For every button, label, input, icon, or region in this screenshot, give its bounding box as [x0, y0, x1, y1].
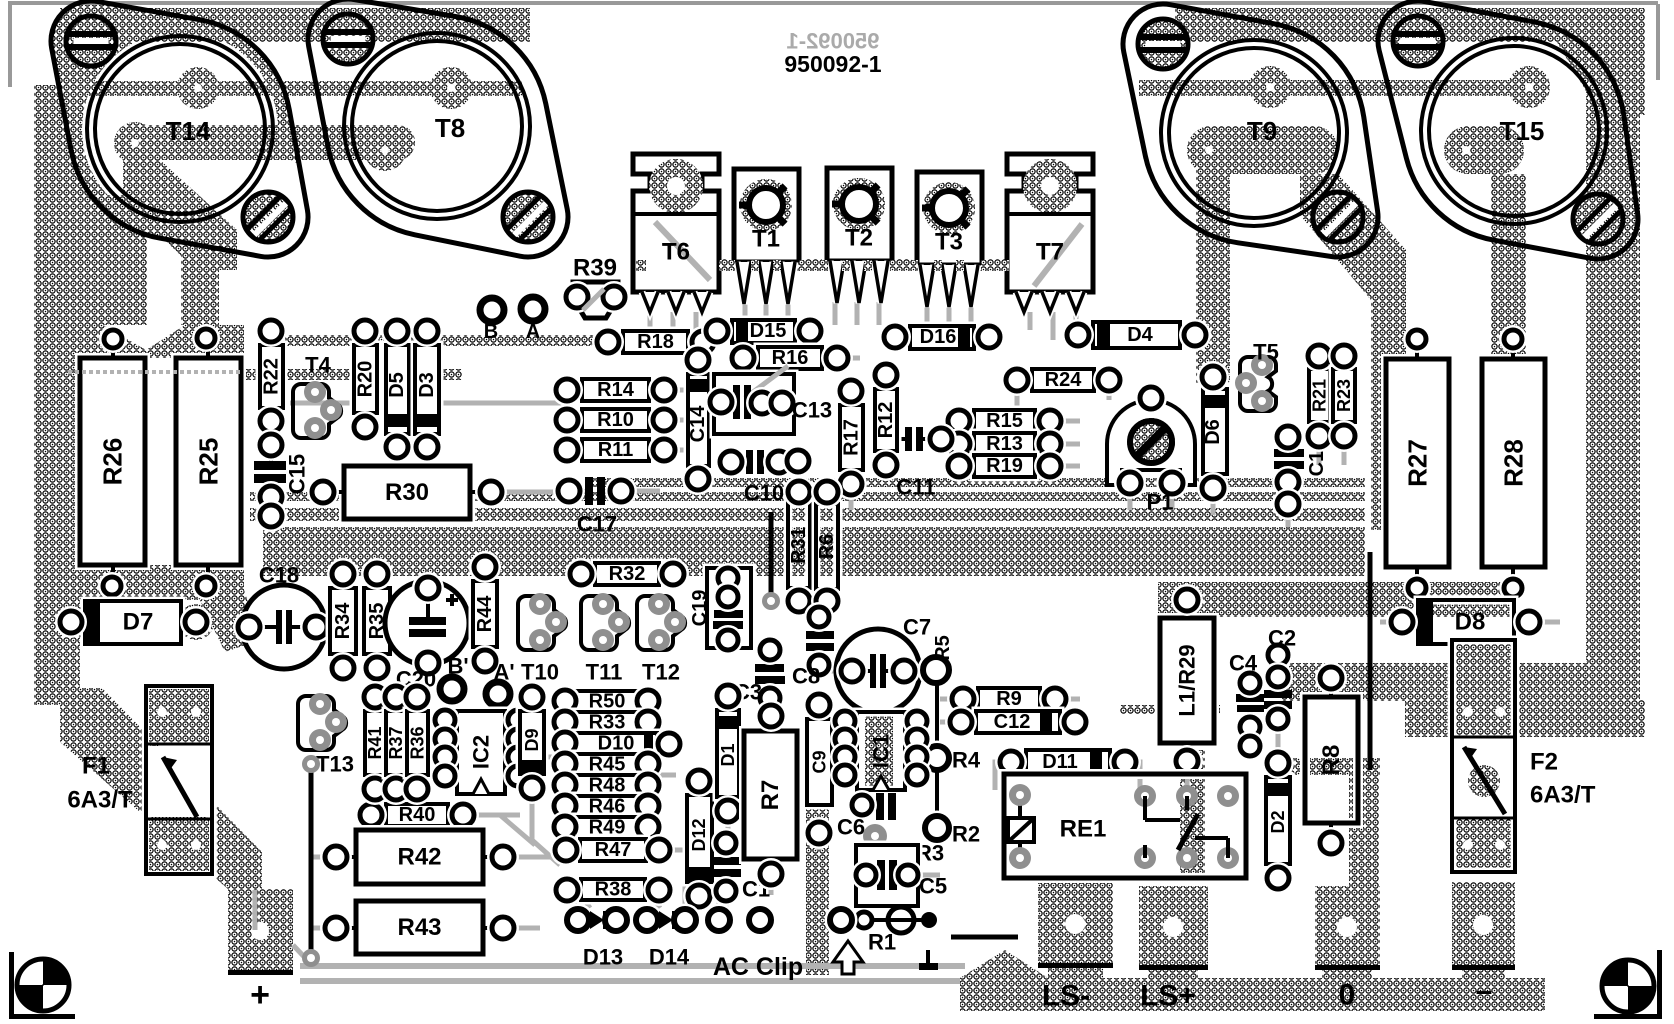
- resistor R38: [581, 879, 645, 900]
- resistor R22: [260, 345, 283, 408]
- svg-text:B: B: [484, 321, 498, 343]
- node Bp: [434, 671, 470, 707]
- resistor R24: [1032, 369, 1094, 391]
- mounting screw of T15: [1573, 194, 1623, 244]
- svg-text:T5: T5: [1253, 340, 1279, 365]
- svg-text:T6: T6: [662, 239, 690, 266]
- svg-text:R26: R26: [98, 438, 128, 486]
- wire collector trace y=88 left: [62, 81, 522, 96]
- svg-text:T12: T12: [642, 660, 680, 685]
- svg-text:950092-1: 950092-1: [787, 29, 880, 54]
- pin of T1: [759, 262, 773, 304]
- op-amp IC1: [857, 712, 905, 790]
- wire collector trace y=88 right: [1139, 80, 1545, 96]
- svg-text:R20: R20: [355, 361, 377, 398]
- wire trace inside T6: [655, 222, 710, 280]
- svg-text:C13: C13: [792, 398, 832, 423]
- svg-text:R40: R40: [399, 804, 436, 826]
- diode D6: [1203, 389, 1227, 474]
- svg-text:D3: D3: [416, 372, 438, 398]
- transistor T4 T4: [293, 384, 341, 438]
- svg-text:T3: T3: [935, 229, 963, 256]
- pad - terminal: [1452, 882, 1515, 969]
- svg-text:R34: R34: [332, 602, 354, 640]
- capacitor C20: [385, 581, 469, 665]
- svg-text:P1: P1: [1147, 490, 1174, 515]
- svg-text:R38: R38: [595, 879, 632, 901]
- inductor L1/R29: [1160, 618, 1214, 743]
- transistor T14 (TO-3): [51, 1, 308, 257]
- svg-text:R17: R17: [841, 419, 863, 456]
- resistor R44: [473, 581, 497, 647]
- svg-text:IC2: IC2: [469, 735, 494, 769]
- wire band through driver pins: [636, 259, 1012, 271]
- svg-text:R28: R28: [1499, 439, 1529, 487]
- svg-text:C6: C6: [837, 815, 865, 840]
- transistor R1: [888, 907, 914, 933]
- transistor R3: [863, 824, 887, 848]
- transistor T15 (TO-3): [1378, 1, 1638, 259]
- svg-text:L1/R29: L1/R29: [1175, 644, 1200, 716]
- svg-text:A: A: [526, 321, 540, 343]
- svg-text:C5: C5: [919, 874, 947, 899]
- wire band under R27/R28: [1158, 582, 1516, 617]
- svg-text:R21: R21: [1310, 379, 1330, 412]
- resistor R12: [875, 389, 897, 451]
- mounting screw of T9: [1313, 192, 1363, 242]
- mounting screw of T9: [1138, 19, 1188, 69]
- svg-text:F1: F1: [82, 753, 110, 780]
- svg-text:R43: R43: [397, 914, 441, 941]
- svg-text:T1: T1: [752, 226, 780, 253]
- resistor R49: [575, 817, 639, 838]
- pin of T6: [642, 292, 658, 312]
- wire link W4: [951, 935, 1018, 940]
- svg-text:C14: C14: [687, 405, 709, 443]
- wire vertical band near IC1: [806, 790, 829, 975]
- resistor R19: [974, 455, 1035, 477]
- svg-text:D13: D13: [583, 945, 623, 970]
- svg-text:T10: T10: [521, 660, 559, 685]
- svg-text:950092-1: 950092-1: [784, 51, 881, 77]
- svg-text:C17: C17: [577, 512, 617, 537]
- wire link W2: [769, 512, 774, 598]
- resistor R21: [1309, 369, 1330, 422]
- resistor R27: [1386, 359, 1449, 567]
- svg-text:T7: T7: [1036, 239, 1064, 266]
- svg-text:6A3/T: 6A3/T: [1530, 782, 1596, 809]
- svg-text:R42: R42: [397, 844, 441, 871]
- diode D3: [415, 345, 439, 434]
- svg-text:B': B': [447, 654, 468, 679]
- wire copper fill inside T14 flange: [51, 1, 308, 257]
- capacitor C5: [856, 845, 918, 906]
- svg-text:D14: D14: [649, 945, 690, 970]
- svg-text:R36: R36: [408, 726, 428, 759]
- pad LS- terminal: [1038, 882, 1113, 967]
- svg-text:RE1: RE1: [1060, 816, 1107, 843]
- wire band relay vertical: [1180, 750, 1205, 878]
- diode D2: [1266, 777, 1290, 864]
- resistor R28: [1482, 359, 1545, 567]
- pin of T1: [781, 262, 795, 304]
- svg-text:C9: C9: [810, 750, 830, 773]
- transistor T3: [917, 172, 982, 265]
- transistor T7 (TO-220): [1007, 154, 1093, 292]
- resistor R30: [344, 466, 470, 519]
- svg-text:+: +: [250, 976, 270, 1014]
- mounting screw of T8: [323, 14, 373, 64]
- pad 0 terminal: [1315, 886, 1380, 969]
- resistor R6: [816, 504, 838, 589]
- capacitor C11: [905, 427, 912, 451]
- svg-text:R5: R5: [932, 635, 954, 661]
- svg-text:R24: R24: [1045, 369, 1083, 391]
- resistor R42: [356, 830, 483, 884]
- svg-text:T9: T9: [1247, 116, 1277, 146]
- svg-text:T8: T8: [435, 113, 465, 143]
- resistor R32: [595, 563, 659, 585]
- wire central horizontal highway: [263, 527, 1365, 576]
- capacitor C7: [836, 629, 920, 713]
- svg-text:–: –: [1476, 975, 1493, 1008]
- mounting screw of T14: [66, 16, 116, 66]
- svg-text:LS+: LS+: [1140, 980, 1196, 1013]
- resistor R11: [582, 439, 649, 461]
- resistor R48: [575, 775, 639, 796]
- pin of T1: [737, 262, 751, 304]
- diode D11: [1026, 750, 1110, 774]
- wire vertical bands under T14: [103, 195, 147, 365]
- pin of T2: [874, 261, 888, 303]
- diode D1: [717, 710, 739, 797]
- svg-text:T2: T2: [845, 225, 873, 252]
- wire dotted trace across R26/R25: [68, 370, 243, 374]
- resistor R34: [330, 588, 356, 654]
- svg-text:R6: R6: [816, 534, 838, 560]
- svg-text:C7: C7: [903, 615, 931, 640]
- resistor R41: [365, 711, 385, 775]
- capacitor C15: [254, 461, 286, 470]
- capacitor C9: [807, 719, 832, 805]
- pin of T7: [1068, 292, 1084, 312]
- white circle interiors of TO-3 cans: [82, 31, 278, 227]
- svg-text:D1: D1: [718, 743, 738, 766]
- resistor R20: [354, 345, 377, 413]
- resistor R18: [623, 331, 688, 353]
- diode D7: [85, 601, 181, 644]
- resistor R47: [580, 839, 646, 861]
- resistor R33: [575, 712, 639, 733]
- transistor T1: [734, 169, 799, 262]
- wire diagonal to + pad: [60, 688, 262, 889]
- pin of T6: [668, 292, 684, 312]
- transistor T8 (TO-3): [308, 0, 568, 257]
- svg-text:D5: D5: [386, 372, 408, 398]
- resistor R17: [840, 405, 863, 470]
- diode D13: [562, 904, 595, 937]
- svg-text:R18: R18: [637, 331, 674, 353]
- svg-text:R4: R4: [952, 748, 981, 773]
- svg-text:R23: R23: [1334, 379, 1354, 412]
- capacitor C4: [1236, 694, 1264, 702]
- pin of T7: [1016, 292, 1032, 312]
- diode D4: [1093, 322, 1180, 348]
- svg-text:T14: T14: [166, 116, 211, 146]
- pin of T2: [852, 261, 866, 303]
- pin of T2: [830, 261, 844, 303]
- transistor T11 T11: [581, 596, 629, 650]
- svg-text:R7: R7: [757, 780, 784, 811]
- diode D5: [386, 345, 409, 434]
- svg-text:D2: D2: [1268, 810, 1288, 833]
- fuse F1: [146, 686, 212, 874]
- wire band below T9 left pad: [1196, 168, 1230, 383]
- wire diagonal under T14: [123, 160, 237, 270]
- resistor R35: [364, 588, 390, 654]
- resistor R9: [978, 688, 1040, 710]
- pin of T7: [1042, 292, 1058, 312]
- svg-text:R27: R27: [1403, 439, 1433, 487]
- svg-text:R25: R25: [194, 438, 224, 486]
- resistor R5: [918, 652, 955, 689]
- diode D10: [575, 733, 657, 754]
- mounting screw of T14: [243, 192, 293, 242]
- capacitor C8: [806, 631, 834, 639]
- wire right edge band: [1586, 10, 1640, 670]
- resistor R43: [356, 901, 483, 954]
- svg-text:D16: D16: [920, 326, 957, 348]
- ground symbol: [926, 950, 930, 963]
- svg-text:D6: D6: [1202, 419, 1224, 445]
- transistor T2: [827, 168, 892, 261]
- wire base traces right: [1187, 126, 1338, 174]
- svg-text:R32: R32: [609, 563, 646, 585]
- resistor R2: [920, 811, 955, 846]
- resistor R10: [582, 409, 649, 431]
- resistor R37: [386, 711, 406, 775]
- wire band above R25/R26: [66, 325, 244, 358]
- fuse F2: [1452, 640, 1515, 737]
- resistor R14: [582, 379, 649, 401]
- pad + terminal: [228, 889, 293, 974]
- svg-text:6A3/T: 6A3/T: [67, 787, 133, 814]
- svg-text:AC Clip: AC Clip: [713, 953, 803, 981]
- svg-text:R39: R39: [573, 255, 617, 282]
- diode D12: [687, 795, 712, 882]
- svg-text:C15: C15: [285, 454, 310, 494]
- node B: [474, 292, 510, 328]
- resistor R31: [788, 503, 810, 588]
- svg-text:C2: C2: [1268, 626, 1296, 651]
- svg-text:C19: C19: [689, 590, 711, 627]
- node A: [515, 291, 551, 327]
- svg-text:D4: D4: [1127, 324, 1153, 346]
- clip arrow symbol: [833, 941, 863, 974]
- diode D15: [732, 320, 795, 343]
- svg-text:IC1: IC1: [869, 734, 894, 768]
- op-amp IC2: [457, 711, 505, 794]
- svg-text:R8: R8: [1318, 745, 1345, 776]
- relay RE1: [1004, 774, 1246, 878]
- svg-text:D7: D7: [123, 609, 154, 636]
- svg-text:R12: R12: [875, 402, 897, 439]
- wire supply trace left vertical band: [34, 85, 80, 705]
- corner mark top-left: [8, 1, 1610, 5]
- svg-text:C18: C18: [259, 563, 299, 588]
- resistor R13: [974, 433, 1035, 455]
- capacitor C2: [1264, 690, 1292, 698]
- resistor R40: [386, 804, 448, 826]
- svg-text:R10: R10: [597, 409, 634, 431]
- resistor R46: [575, 796, 639, 817]
- svg-text:T15: T15: [1500, 116, 1545, 146]
- wire top-right horizontal band: [1175, 8, 1557, 42]
- pin of T3: [920, 265, 934, 307]
- capacitor C13: [714, 374, 794, 434]
- svg-text:T13: T13: [316, 752, 354, 777]
- resistor R50: [575, 691, 639, 712]
- svg-text:LS-: LS-: [1042, 980, 1090, 1013]
- transistor T13 T13: [298, 696, 346, 750]
- fiducial bottom-right: [1602, 960, 1654, 1012]
- svg-text:R19: R19: [986, 455, 1023, 477]
- pin of T6: [694, 292, 710, 312]
- svg-text:C12: C12: [994, 711, 1031, 733]
- svg-text:R1: R1: [868, 930, 896, 955]
- mounting screw of T8: [503, 192, 553, 242]
- wire link W3: [1368, 552, 1373, 770]
- svg-text:C4: C4: [1229, 651, 1258, 676]
- wire band segments through pins: [636, 260, 646, 271]
- pad LS+ terminal: [1139, 886, 1208, 969]
- resistor R23: [1333, 369, 1355, 422]
- svg-text:C10: C10: [744, 481, 784, 506]
- wire mass above F2: [1405, 700, 1645, 737]
- resistor R15: [974, 410, 1035, 432]
- resistor R16: [758, 347, 822, 369]
- trimmer P1: [1107, 400, 1195, 485]
- transistor T9 (TO-3): [1123, 4, 1378, 257]
- capacitor C18: [242, 585, 326, 669]
- capacitor C16: [1274, 449, 1304, 457]
- svg-text:D9: D9: [522, 728, 542, 751]
- wire base trace y=140 left: [118, 125, 415, 160]
- resistor R8: [1305, 697, 1358, 823]
- capacitor C1: [712, 857, 741, 865]
- capacitor C3: [755, 664, 784, 672]
- diode D8: [1418, 600, 1514, 644]
- transistor T12 T12: [637, 596, 685, 650]
- svg-text:R16: R16: [772, 347, 809, 369]
- resistor R26: [80, 358, 145, 565]
- svg-text:R44: R44: [474, 595, 496, 633]
- svg-text:0: 0: [1339, 979, 1356, 1012]
- svg-text:D12: D12: [689, 818, 709, 851]
- svg-text:R22: R22: [261, 358, 283, 395]
- svg-text:C8: C8: [792, 664, 820, 689]
- svg-text:R14: R14: [597, 379, 635, 401]
- capacitor C19: [707, 568, 751, 648]
- capacitor C10: [746, 450, 753, 474]
- corner mark top-right: [1598, 1, 1658, 5]
- capacitor C6: [876, 793, 884, 820]
- diode D14: [631, 904, 664, 937]
- wire trace to R18: [258, 335, 614, 346]
- svg-text:R2: R2: [952, 822, 980, 847]
- pin of T3: [964, 265, 978, 307]
- wire diagonal T9: [1300, 174, 1406, 300]
- svg-text:T11: T11: [586, 660, 623, 685]
- wire thin traces: [290, 390, 560, 403]
- pin of T3: [942, 265, 956, 307]
- transistor T6 (TO-220): [633, 154, 719, 292]
- capacitor C14: [688, 374, 709, 466]
- wire band below R25/R26: [79, 565, 244, 600]
- wire vertical bands right: [1371, 250, 1406, 530]
- svg-text:T4: T4: [305, 353, 331, 378]
- wire top-left horizontal band: [60, 8, 530, 42]
- resistor R25: [176, 358, 241, 565]
- svg-text:C11: C11: [896, 475, 935, 500]
- transistor T10 T10: [518, 596, 566, 650]
- wire link W1: [309, 767, 314, 958]
- capacitor C17: [585, 477, 593, 505]
- resistor R7: [744, 731, 797, 859]
- svg-text:D8: D8: [1455, 609, 1486, 636]
- svg-text:R47: R47: [595, 839, 632, 861]
- wire bottom edge traces: [300, 963, 965, 969]
- wire trace inside T7: [1034, 224, 1082, 286]
- svg-text:F2: F2: [1530, 749, 1558, 776]
- svg-text:R11: R11: [598, 439, 634, 461]
- svg-text:R31: R31: [788, 527, 810, 564]
- svg-text:R30: R30: [385, 479, 429, 506]
- svg-text:D15: D15: [750, 320, 787, 342]
- node Ap: [480, 676, 516, 712]
- resistor R45: [575, 754, 639, 775]
- fiducial bottom-left: [17, 959, 69, 1011]
- svg-text:A': A': [493, 660, 514, 685]
- resistor R4: [920, 741, 955, 776]
- diode D16: [910, 326, 974, 349]
- diode D9: [520, 711, 544, 774]
- resistor R39: [573, 282, 618, 318]
- mounting screw of T15: [1393, 16, 1443, 66]
- capacitor C12: [976, 711, 1060, 733]
- resistor R36: [407, 711, 428, 775]
- transistor T5 T5: [1240, 357, 1276, 411]
